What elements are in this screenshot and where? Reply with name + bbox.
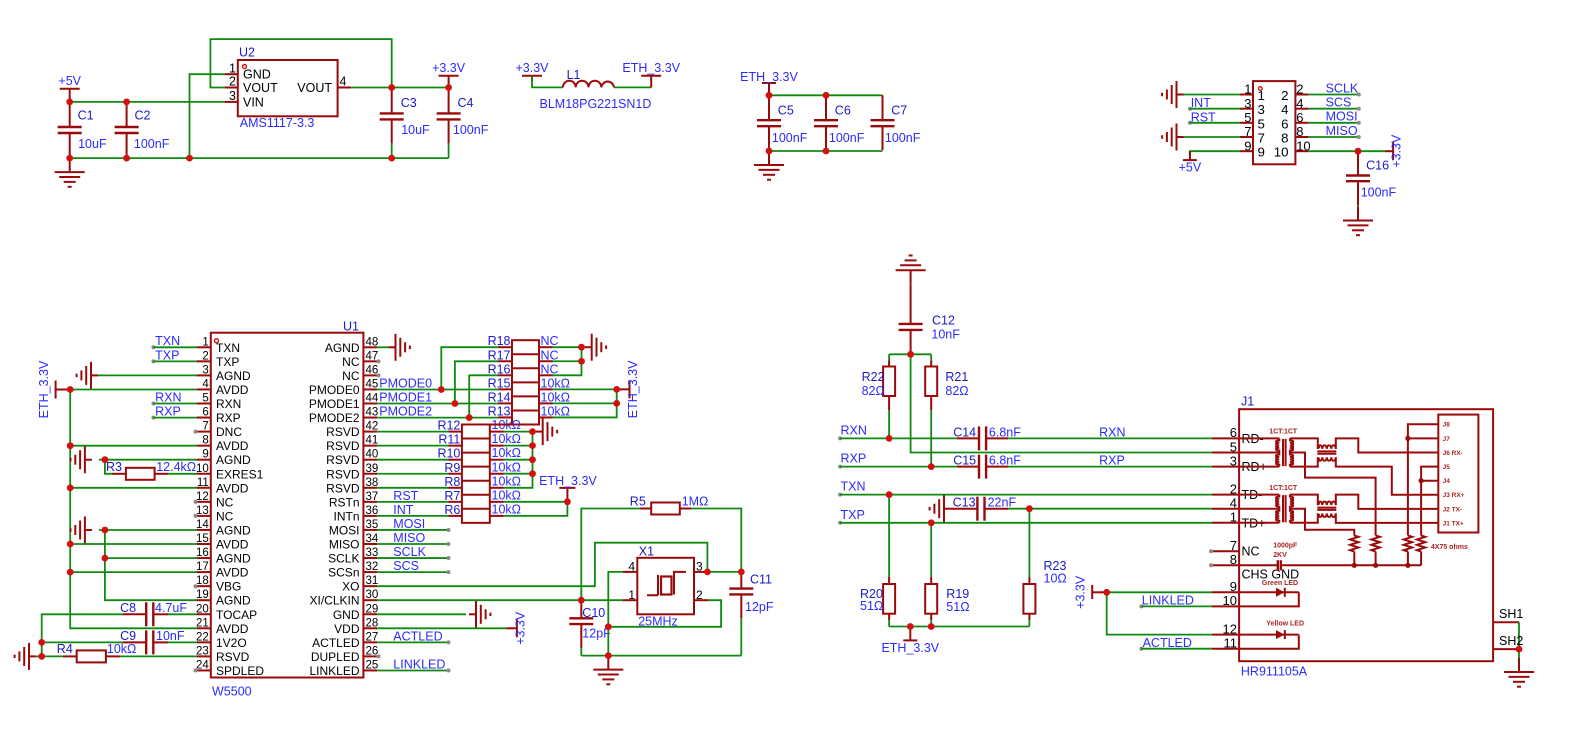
svg-text:2: 2 [1230,481,1237,496]
wire pin6 MOSI [1309,121,1361,125]
svg-text:6: 6 [1230,425,1237,440]
wire pin29 gnd [377,613,466,615]
svg-text:TOCAP: TOCAP [216,608,257,622]
wire R21 R22 tops [889,353,931,355]
junction C1 bottom [66,155,73,162]
junction C4 top [445,84,452,91]
svg-text:21: 21 [196,617,209,629]
svg-text:6: 6 [202,407,208,419]
wire eth rail bottom [889,626,1029,628]
svg-text:20: 20 [196,603,209,615]
svg-text:RXN: RXN [155,390,181,404]
resistor R4 [57,642,137,662]
wire pin3 INT [1190,108,1240,110]
svg-text:PMODE2: PMODE2 [309,411,360,425]
svg-text:100nF: 100nF [772,131,808,145]
wire pin11 [70,487,196,489]
svg-text:44: 44 [366,393,379,405]
junction eth flag rail [907,623,914,630]
svg-text:R3: R3 [106,460,122,474]
svg-text:6: 6 [1296,110,1303,125]
svg-text:40: 40 [366,449,379,461]
value 4X75 ohms [1431,544,1468,551]
wire pin14 [99,529,197,531]
svg-text:J3 RX+: J3 RX+ [1443,492,1465,499]
junction X1 gnd [605,623,612,630]
wire pin6 RXP [153,417,196,419]
svg-text:5: 5 [1258,116,1265,131]
svg-text:TXN: TXN [155,334,180,348]
wire pin39 [377,473,448,475]
wire TX sec top [1290,495,1318,506]
wire pin16 [105,557,197,559]
junction C5 bottom [766,148,773,155]
node ACTLED label [393,629,442,643]
svg-text:RXN: RXN [841,423,867,437]
junction 10k1 [613,386,620,393]
svg-text:C15: C15 [953,454,976,468]
svg-text:3: 3 [696,560,703,574]
svg-text:10kΩ: 10kΩ [541,390,571,404]
junction R11 [529,442,536,449]
svg-text:INTn: INTn [333,509,359,523]
svg-text:C10: C10 [582,606,605,620]
wire GND rail [70,157,449,159]
wire R12 right [504,431,533,433]
svg-text:R9: R9 [444,461,460,475]
wire pin22 [168,641,197,643]
wire RX sec top [1290,438,1318,449]
svg-text:2: 2 [202,350,208,362]
wire NC row3 [553,347,582,375]
svg-text:4X75 ohms: 4X75 ohms [1431,544,1468,551]
svg-text:PMODE1: PMODE1 [309,397,360,411]
svg-text:INT: INT [393,503,414,517]
wire U2 pin4 out [351,87,448,89]
capacitor C15 [953,454,1021,479]
svg-text:R11: R11 [438,433,460,447]
svg-text:2KV: 2KV [1273,552,1287,559]
svg-text:ETH_3.3V: ETH_3.3V [622,61,680,75]
svg-text:RXP: RXP [155,405,181,419]
connector J2 2x5 header [1240,81,1311,164]
svg-text:+5V: +5V [1179,161,1202,175]
capacitor C9 [120,629,185,654]
svg-text:ACTLED: ACTLED [393,629,442,643]
junction agnd pin16 [102,555,109,562]
svg-text:30: 30 [366,589,379,601]
svg-text:15: 15 [196,533,209,545]
svg-text:R16: R16 [488,362,511,376]
junction PMODE2 [466,414,473,421]
svg-text:16: 16 [196,547,209,559]
wire pin40 [377,459,448,461]
resistor term A [1350,536,1358,566]
ground pin29 [469,601,490,628]
junction C11 top [738,569,745,576]
wire pin35 MOSI [377,528,450,532]
wire C5 bottom rail [769,150,883,152]
junction 10k2 [613,400,620,407]
wire pin23 [120,655,197,657]
wire pin5 RST [1190,122,1240,124]
svg-text:SCLK: SCLK [1326,81,1359,95]
svg-text:2: 2 [1281,88,1288,103]
svg-text:PMODE0: PMODE0 [309,383,360,397]
resistor R22 [862,354,896,438]
wire PMODE2 to R16 [469,375,498,417]
capacitor C8 [120,601,187,626]
svg-text:U2: U2 [239,46,255,60]
svg-text:10: 10 [1274,145,1289,160]
svg-text:1V2O: 1V2O [216,636,247,650]
svg-text:4: 4 [1230,496,1237,511]
power flag ETH_3.3V at L1 [622,61,680,88]
value Green LED [1262,580,1298,587]
svg-text:RXN: RXN [1099,425,1125,439]
svg-text:J1 TX+: J1 TX+ [1443,520,1464,527]
svg-text:41: 41 [366,435,379,447]
svg-text:32: 32 [366,561,379,573]
svg-text:38: 38 [366,477,379,489]
svg-text:AVDD: AVDD [216,439,249,453]
wire pin2 TXP [153,360,196,362]
node pin46 NC [377,373,381,377]
junction C2 bottom [123,155,130,162]
wire pin28 vdd [377,627,506,629]
svg-text:1000pF: 1000pF [1273,542,1298,549]
svg-text:NC: NC [342,369,360,383]
svg-text:29: 29 [366,603,379,615]
node RXP right [838,452,866,469]
svg-text:12: 12 [196,491,209,503]
svg-text:R18: R18 [488,334,511,348]
svg-text:C14: C14 [953,425,976,439]
wire pin36 INT [377,515,448,517]
junction C3 bottom [388,155,395,162]
capacitor C2 [115,102,170,158]
resistor term D [1417,536,1425,566]
svg-text:24: 24 [196,659,209,671]
svg-text:2: 2 [696,588,703,602]
capacitor C12 [899,284,961,354]
svg-text:ETH_3.3V: ETH_3.3V [881,641,939,655]
wire R5 left [581,509,640,601]
svg-text:31: 31 [366,575,379,587]
svg-text:82Ω: 82Ω [945,384,968,398]
capacitor C4 [437,88,489,159]
svg-text:18: 18 [196,575,209,587]
power flag ETH_3.3V left rail [37,360,70,418]
capacitor 1000pF 2KV [1239,542,1421,570]
svg-text:RXP: RXP [1099,454,1125,468]
svg-text:AGND: AGND [216,523,251,537]
svg-text:SCLK: SCLK [328,552,359,566]
svg-text:ETH_3.3V: ETH_3.3V [37,360,51,418]
node SH2 [1493,634,1523,649]
svg-text:19: 19 [196,589,209,601]
svg-text:28: 28 [366,617,379,629]
svg-text:C3: C3 [401,96,417,110]
svg-text:R22: R22 [862,370,885,384]
svg-text:8: 8 [202,435,208,447]
wire pin12 LED [1107,592,1212,634]
wire PMODE1 to R17 [455,361,498,403]
svg-text:J6 RX-: J6 RX- [1443,450,1463,457]
svg-text:TXP: TXP [841,508,865,522]
capacitor C14 [953,425,1021,450]
junction rail pin11 [67,484,74,491]
svg-text:C16: C16 [1366,158,1389,172]
junction C16 top [1355,148,1362,155]
svg-text:SCSn: SCSn [328,566,359,580]
svg-text:10kΩ: 10kΩ [492,474,522,488]
svg-text:35: 35 [366,519,379,531]
node MISO label [393,531,425,545]
junction J7 [1405,436,1410,441]
svg-text:10kΩ: 10kΩ [492,446,522,460]
svg-text:NC: NC [1242,545,1260,559]
svg-text:X1: X1 [639,545,654,559]
svg-text:C4: C4 [458,96,474,110]
ground C13 [930,495,951,522]
svg-text:LINKLED: LINKLED [309,664,359,678]
svg-text:R21: R21 [945,370,968,384]
wire PMODE0 to R18 [441,347,498,389]
junction R9 [529,470,536,477]
inductor L1 [540,68,652,111]
svg-text:7: 7 [1244,124,1251,139]
svg-text:AVDD: AVDD [216,383,249,397]
node RST label [393,489,418,503]
transformer TX 1CT:1CT [1239,485,1298,523]
wire +5V rail [70,101,225,103]
junction X1 pin3 [704,569,711,576]
svg-text:6.8nF: 6.8nF [989,454,1021,468]
node NC R17 [541,348,559,362]
junction RXP R21 [928,463,935,470]
ground pin14 [71,517,92,544]
junction C5 top [766,92,773,99]
svg-text:1: 1 [229,61,236,75]
node PMODE2 [379,405,432,419]
svg-text:J4: J4 [1443,478,1451,485]
svg-text:Green LED: Green LED [1262,580,1298,587]
svg-text:14: 14 [196,519,209,531]
transformer RX 1CT:1CT [1239,429,1298,467]
wire pin15 [70,543,196,545]
svg-text:27: 27 [366,631,379,643]
svg-text:51Ω: 51Ω [946,600,969,614]
svg-text:MOSI: MOSI [1326,110,1358,124]
resistor term C [1404,536,1412,566]
ground at connector pin1 [1162,81,1183,108]
node RXN [151,390,181,405]
svg-text:17: 17 [196,561,209,573]
junction TXP R19 [928,519,935,526]
svg-text:100nF: 100nF [885,131,921,145]
svg-text:C13: C13 [953,496,976,510]
wire pin43 PMODE2 [377,417,498,419]
svg-text:J1: J1 [1241,394,1254,408]
wire pin7 [1184,136,1240,138]
svg-text:C12: C12 [932,314,955,328]
wire pin45 PMODE0 [377,389,498,391]
resistor R21 [925,354,968,466]
power flag +3.3V rotated [1385,134,1404,168]
junction R7 eth [564,498,571,505]
junction LED flag [1103,589,1110,596]
svg-text:J5: J5 [1443,464,1451,471]
op-amp U2 AMS1117-3.3 [225,46,352,131]
crystal X1 [623,545,709,629]
wire pin3 [98,374,197,376]
junction C6 top [823,92,830,99]
junction R23 top [1026,505,1033,512]
svg-text:SPDLED: SPDLED [216,664,264,678]
node ACTLED right [1139,636,1192,651]
svg-text:RSVD: RSVD [326,425,360,439]
svg-text:11: 11 [1224,636,1238,651]
svg-text:EXRES1: EXRES1 [216,467,264,481]
svg-text:VIN: VIN [243,95,264,109]
wire pin5 RXN [153,403,196,405]
svg-text:DUPLED: DUPLED [311,650,360,664]
svg-text:SCS: SCS [393,559,419,573]
node pin13 NC [194,514,198,518]
node SCS [1326,96,1352,110]
svg-text:VDD: VDD [334,622,360,636]
wire R3 left [105,460,112,474]
junction TXN R20 [886,491,893,498]
junction rail pin4 [67,386,74,393]
svg-text:R12: R12 [437,419,460,433]
svg-text:+5V: +5V [58,74,81,88]
capacitor C5 [757,95,808,150]
node RXN right [838,423,867,440]
svg-text:TXP: TXP [216,355,239,369]
value 10k [541,390,571,404]
svg-text:AGND: AGND [325,341,360,355]
svg-text:10kΩ: 10kΩ [107,642,136,656]
wire pin8 [70,445,196,447]
junction R10 [529,456,536,463]
svg-text:10kΩ: 10kΩ [492,488,522,502]
svg-text:LINKLED: LINKLED [393,657,445,671]
wire R9 right [504,473,533,475]
svg-text:NC: NC [541,362,559,376]
wire 10k row1 [553,388,617,390]
svg-text:4: 4 [340,75,347,89]
svg-text:36: 36 [366,505,379,517]
svg-text:TXP: TXP [155,348,179,362]
wire SH gnd [1518,649,1520,672]
svg-text:U1: U1 [343,320,359,334]
svg-text:MOSI: MOSI [329,523,360,537]
wire pin9 LED [1107,591,1212,593]
junction C2 top [123,99,130,106]
wire ETH rail vertical [70,390,196,629]
node pin26 DUPLED [377,654,381,658]
svg-text:10: 10 [1223,593,1237,608]
svg-text:1CT:1CT: 1CT:1CT [1269,429,1298,436]
wire R10 right [504,459,533,461]
svg-text:11: 11 [197,477,209,489]
svg-text:NC: NC [541,334,559,348]
svg-text:1CT:1CT: 1CT:1CT [1269,485,1298,492]
svg-text:10kΩ: 10kΩ [492,432,522,446]
svg-text:9: 9 [1230,579,1237,594]
wire pin44 PMODE1 [377,403,498,405]
node SCLK label [393,545,426,559]
wire pin32 SCS [377,570,450,574]
svg-text:RXN: RXN [216,397,241,411]
svg-text:J7: J7 [1443,436,1451,443]
wire pin33 SCLK [377,556,450,560]
capacitor C6 [814,95,865,150]
svg-text:R13: R13 [488,404,511,418]
svg-text:NC: NC [541,348,559,362]
junction C1 top [66,99,73,106]
svg-text:10uF: 10uF [401,123,430,137]
svg-text:VBG: VBG [216,580,241,594]
junction pin1 gnd [186,155,193,162]
power flag ETH_3.3V pullups [617,360,640,418]
junction C12 bottom [907,351,914,358]
svg-text:3: 3 [202,364,208,376]
wire to L1 [532,76,563,88]
power flag +5V at connector [1179,151,1202,174]
node PMODE1 [379,390,432,404]
svg-text:R14: R14 [488,390,511,404]
svg-text:12: 12 [1223,621,1237,636]
wire RXP row [840,466,957,468]
svg-text:7: 7 [1258,131,1265,146]
wire pin27 ACTLED [377,640,450,644]
svg-text:RSVD: RSVD [326,453,360,467]
wire U2 pin2 loop [210,39,391,87]
svg-text:1: 1 [1244,82,1251,97]
capacitor C11 [729,572,774,656]
capacitor C1 [58,102,107,158]
svg-text:46: 46 [366,364,379,376]
wire pin17 [70,571,196,573]
svg-text:R5: R5 [630,495,646,509]
resistor R23 [1023,509,1066,627]
svg-text:HR911105A: HR911105A [1241,664,1308,678]
wire NC row1 [553,346,582,348]
svg-text:AGND: AGND [216,552,251,566]
svg-text:SH2: SH2 [1499,634,1523,648]
junction NC2 [578,358,585,365]
ground R4 [15,643,36,670]
ground pin3 [77,362,98,389]
svg-text:1: 1 [1230,510,1237,525]
svg-text:10Ω: 10Ω [1044,571,1067,585]
svg-text:10kΩ: 10kΩ [541,404,571,418]
svg-text:8: 8 [1281,131,1288,146]
junction SH2 [1516,646,1523,653]
node NC R18 [541,334,559,348]
wire pin10 LINKLED [1141,605,1212,607]
svg-text:AGND: AGND [216,594,251,608]
junction rail B [1373,563,1378,568]
svg-text:RST: RST [393,489,418,503]
resistor array R12-R6 [437,418,521,523]
ground above C12 [896,256,926,285]
svg-text:MISO: MISO [329,538,360,552]
svg-text:PMODE1: PMODE1 [379,390,432,404]
